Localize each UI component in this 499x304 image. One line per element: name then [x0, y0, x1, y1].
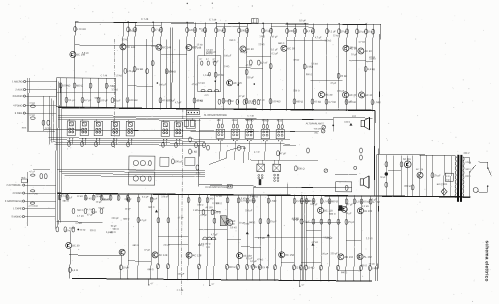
- svg-text:100 µF: 100 µF: [289, 29, 298, 33]
- svg-text:1 MΩ: 1 MΩ: [208, 198, 214, 200]
- svg-text:220 pF: 220 pF: [189, 28, 198, 32]
- svg-text:12 kΩ: 12 kΩ: [209, 52, 215, 54]
- svg-text:ALTOPARLANTE: ALTOPARLANTE: [306, 122, 325, 125]
- svg-text:4,7 kΩ: 4,7 kΩ: [328, 100, 336, 104]
- svg-text:12 kΩ: 12 kΩ: [128, 31, 134, 33]
- svg-text:220 pF: 220 pF: [331, 253, 339, 255]
- svg-text:5 MONO: 5 MONO: [12, 215, 22, 218]
- svg-text:1,5 kΩ: 1,5 kΩ: [261, 265, 269, 269]
- svg-text:schema elettrico: schema elettrico: [483, 241, 489, 282]
- svg-text:RADIO: RADIO: [246, 119, 254, 122]
- svg-text:AL 102: AL 102: [364, 255, 373, 259]
- svg-text:100 µF: 100 µF: [310, 204, 318, 206]
- svg-text:BC 30: BC 30: [287, 46, 295, 50]
- svg-text:47 kΩ: 47 kΩ: [369, 57, 375, 59]
- svg-text:1 MΩ: 1 MΩ: [224, 66, 230, 68]
- svg-text:220 pF: 220 pF: [112, 218, 120, 220]
- svg-text:47 µF: 47 µF: [347, 204, 354, 206]
- svg-text:10 µF: 10 µF: [69, 228, 76, 230]
- svg-text:10 kΩ: 10 kΩ: [197, 100, 203, 102]
- svg-text:C 7.49: C 7.49: [209, 18, 217, 21]
- svg-text:100 kΩ: 100 kΩ: [227, 224, 235, 226]
- svg-text:1 MΩ: 1 MΩ: [374, 100, 380, 104]
- svg-text:12 kΩ: 12 kΩ: [356, 199, 363, 203]
- svg-text:680 Ω: 680 Ω: [278, 43, 284, 45]
- svg-text:47 µF: 47 µF: [239, 96, 246, 98]
- svg-text:5,6 Ω: 5,6 Ω: [72, 268, 78, 272]
- svg-text:ALTI: ALTI: [204, 94, 209, 97]
- svg-text:47 kΩ: 47 kΩ: [246, 65, 252, 67]
- svg-text:50 µF: 50 µF: [111, 226, 118, 228]
- svg-text:0,1 µF: 0,1 µF: [329, 29, 337, 33]
- svg-text:220 pF: 220 pF: [124, 199, 132, 201]
- svg-text:25 µF: 25 µF: [213, 61, 220, 63]
- svg-text:3,3 kΩ: 3,3 kΩ: [304, 200, 311, 202]
- svg-text:AC 30: AC 30: [349, 93, 357, 97]
- svg-text:100 µF: 100 µF: [175, 159, 184, 163]
- svg-text:10 µF: 10 µF: [239, 223, 246, 225]
- svg-text:47 kΩ: 47 kΩ: [29, 103, 35, 105]
- svg-text:47 µF: 47 µF: [140, 218, 147, 222]
- svg-text:4,7 µF: 4,7 µF: [29, 171, 36, 173]
- svg-text:10 kΩ: 10 kΩ: [151, 46, 157, 48]
- svg-text:25 µF: 25 µF: [270, 219, 277, 223]
- svg-text:5,6 kΩ: 5,6 kΩ: [85, 198, 92, 200]
- svg-text:680 Ω: 680 Ω: [103, 200, 109, 202]
- svg-text:330 Ω: 330 Ω: [298, 166, 305, 170]
- svg-text:10 µF: 10 µF: [346, 213, 353, 215]
- svg-text:220 pF: 220 pF: [337, 91, 345, 93]
- svg-text:47 kΩ: 47 kΩ: [314, 100, 321, 104]
- svg-text:10 µF: 10 µF: [351, 54, 358, 56]
- svg-text:0,1 µF: 0,1 µF: [246, 258, 253, 260]
- svg-text:0,1 µF: 0,1 µF: [241, 52, 248, 54]
- svg-text:2,2 kΩ: 2,2 kΩ: [366, 238, 373, 240]
- svg-text:4 Ω: 4 Ω: [446, 176, 450, 178]
- svg-text:1,5 kΩ: 1,5 kΩ: [324, 40, 331, 42]
- svg-text:560 Ω: 560 Ω: [113, 229, 119, 231]
- svg-text:VOLUME: VOLUME: [314, 128, 323, 130]
- svg-text:47 µF: 47 µF: [201, 31, 208, 33]
- svg-text:25 µF: 25 µF: [114, 98, 121, 102]
- svg-text:12 kΩ: 12 kΩ: [165, 71, 171, 73]
- svg-text:160 V: 160 V: [465, 169, 471, 171]
- svg-text:100 µF: 100 µF: [65, 197, 73, 199]
- svg-text:220 pF: 220 pF: [161, 196, 169, 198]
- svg-text:AD 162: AD 162: [344, 255, 353, 259]
- svg-text:2,2 kΩ: 2,2 kΩ: [212, 203, 219, 205]
- svg-text:4,7 nF: 4,7 nF: [260, 61, 268, 65]
- svg-text:25 µF: 25 µF: [434, 173, 441, 177]
- svg-text:1000 µF: 1000 µF: [404, 186, 412, 188]
- svg-text:4,7 µF: 4,7 µF: [307, 29, 315, 33]
- svg-text:AL REGISTRATORE: AL REGISTRATORE: [204, 114, 228, 117]
- svg-text:12 kΩ: 12 kΩ: [216, 196, 222, 198]
- svg-text:C 7.48: C 7.48: [141, 18, 149, 21]
- svg-text:10 kΩ: 10 kΩ: [369, 264, 375, 266]
- svg-text:220 pF: 220 pF: [245, 210, 253, 212]
- svg-text:0,1 µF: 0,1 µF: [345, 101, 352, 103]
- svg-text:5,6 kΩ: 5,6 kΩ: [230, 227, 237, 229]
- svg-text:2,2 µF: 2,2 µF: [200, 215, 207, 217]
- svg-text:22 kΩ: 22 kΩ: [136, 67, 143, 71]
- svg-text:AC 128: AC 128: [159, 253, 168, 257]
- svg-text:1,5 kΩ: 1,5 kΩ: [248, 196, 255, 198]
- svg-text:560 Ω: 560 Ω: [198, 245, 204, 247]
- svg-text:100 µF: 100 µF: [224, 55, 232, 57]
- svg-text:12 kΩ: 12 kΩ: [65, 230, 71, 232]
- svg-text:50 µF: 50 µF: [380, 177, 386, 179]
- svg-text:22 kΩ: 22 kΩ: [191, 47, 197, 49]
- svg-text:330 Ω: 330 Ω: [90, 230, 96, 232]
- svg-text:25 µF: 25 µF: [322, 254, 329, 256]
- svg-text:50 µF: 50 µF: [169, 100, 176, 102]
- svg-text:680 Ω: 680 Ω: [76, 83, 83, 87]
- svg-text:50 µF: 50 µF: [199, 29, 206, 31]
- svg-text:220 V: 220 V: [463, 153, 469, 155]
- svg-text:4 FONO: 4 FONO: [13, 104, 22, 107]
- svg-text:1,5 kΩ: 1,5 kΩ: [323, 199, 331, 203]
- svg-text:100 kΩ: 100 kΩ: [129, 98, 137, 102]
- svg-text:1 MΩ: 1 MΩ: [259, 36, 265, 38]
- svg-text:50 µF: 50 µF: [99, 208, 106, 210]
- svg-text:680 Ω: 680 Ω: [329, 214, 335, 216]
- svg-text:47 µF: 47 µF: [272, 37, 279, 39]
- svg-text:1,5 kΩ: 1,5 kΩ: [239, 198, 246, 200]
- svg-text:12 kΩ: 12 kΩ: [197, 44, 203, 46]
- svg-text:47 µF: 47 µF: [62, 194, 69, 196]
- svg-text:100 µF: 100 µF: [177, 274, 185, 276]
- svg-text:560 Ω: 560 Ω: [350, 47, 356, 49]
- svg-text:2,2 µF: 2,2 µF: [370, 199, 377, 201]
- svg-text:FONO: FONO: [262, 119, 269, 122]
- svg-text:AL 102: AL 102: [364, 209, 373, 213]
- svg-text:100 kΩ: 100 kΩ: [272, 99, 280, 103]
- svg-text:AC 30: AC 30: [364, 49, 372, 53]
- svg-text:1,5 kΩ: 1,5 kΩ: [203, 75, 210, 77]
- svg-text:AC 30: AC 30: [365, 93, 373, 97]
- svg-text:1 MICRO: 1 MICRO: [12, 80, 22, 83]
- svg-text:REG: REG: [277, 119, 282, 122]
- svg-text:47 µF: 47 µF: [155, 28, 162, 32]
- svg-text:22 kΩ: 22 kΩ: [91, 212, 97, 214]
- svg-text:330 Ω: 330 Ω: [197, 205, 203, 207]
- svg-text:8 Ω: 8 Ω: [446, 179, 450, 181]
- svg-text:REG: REG: [21, 177, 26, 179]
- svg-text:ATT FONO: ATT FONO: [29, 192, 39, 195]
- svg-text:100 µF: 100 µF: [100, 98, 109, 102]
- svg-text:25 µF: 25 µF: [368, 30, 375, 34]
- svg-text:1 TAPE: 1 TAPE: [13, 207, 22, 210]
- svg-text:680 Ω: 680 Ω: [147, 269, 153, 271]
- svg-text:1 kΩ: 1 kΩ: [192, 149, 197, 153]
- svg-text:3,3 kΩ: 3,3 kΩ: [367, 67, 375, 71]
- svg-text:330 Ω: 330 Ω: [228, 265, 235, 269]
- svg-text:10 µF: 10 µF: [125, 209, 132, 211]
- svg-text:2,2 kΩ: 2,2 kΩ: [75, 223, 82, 225]
- svg-text:100 µF: 100 µF: [224, 222, 232, 224]
- svg-text:100 kΩ: 100 kΩ: [95, 196, 102, 198]
- svg-text:680 Ω: 680 Ω: [133, 245, 139, 247]
- svg-text:MIC: MIC: [217, 119, 222, 122]
- svg-text:4,7 µF: 4,7 µF: [315, 37, 322, 39]
- svg-text:25 µF: 25 µF: [348, 220, 355, 224]
- svg-text:170 mV: 170 mV: [77, 27, 86, 31]
- svg-text:3,3 kΩ: 3,3 kΩ: [258, 100, 265, 102]
- svg-text:0,1 µF: 0,1 µF: [271, 53, 278, 55]
- svg-text:BC 30: BC 30: [246, 47, 254, 51]
- svg-text:10 µF: 10 µF: [359, 29, 366, 33]
- svg-text:10 µF: 10 µF: [96, 202, 103, 204]
- svg-text:47 µF: 47 µF: [87, 215, 94, 217]
- svg-text:BC 30: BC 30: [325, 93, 333, 97]
- svg-text:100 Ω: 100 Ω: [344, 122, 350, 124]
- svg-text:4,7 µF: 4,7 µF: [211, 234, 218, 236]
- svg-text:4,7 µF: 4,7 µF: [84, 98, 92, 102]
- svg-text:47 µF: 47 µF: [178, 218, 185, 220]
- svg-text:330 Ω: 330 Ω: [229, 40, 235, 42]
- svg-text:2 AUX: 2 AUX: [15, 88, 22, 91]
- svg-text:560 Ω: 560 Ω: [293, 90, 299, 92]
- svg-text:4,7 kΩ: 4,7 kΩ: [358, 42, 365, 44]
- svg-text:3 GIRADISCHI: 3 GIRADISCHI: [5, 200, 22, 203]
- svg-text:47 µF: 47 µF: [144, 250, 151, 252]
- svg-text:22 kΩ: 22 kΩ: [295, 265, 302, 269]
- svg-text:100 µF: 100 µF: [241, 28, 250, 32]
- svg-text:470 µF: 470 µF: [127, 69, 136, 73]
- svg-text:10 µF: 10 µF: [341, 29, 348, 33]
- svg-text:10 µF: 10 µF: [123, 265, 130, 269]
- svg-text:47 µF: 47 µF: [280, 151, 287, 155]
- svg-text:22 kΩ: 22 kΩ: [258, 44, 264, 46]
- svg-text:AY 103: AY 103: [205, 206, 213, 209]
- svg-text:680 Ω: 680 Ω: [331, 199, 338, 203]
- svg-text:680 Ω: 680 Ω: [341, 272, 347, 274]
- svg-text:1 kΩ: 1 kΩ: [241, 146, 246, 150]
- svg-text:22 kΩ: 22 kΩ: [340, 74, 347, 78]
- svg-text:0,1 µF: 0,1 µF: [68, 98, 76, 102]
- svg-text:22 kΩ: 22 kΩ: [248, 103, 254, 105]
- svg-text:560 Ω: 560 Ω: [95, 98, 101, 100]
- svg-text:5 REG: 5 REG: [15, 112, 23, 115]
- svg-text:AL REGISTRATORE: AL REGISTRATORE: [205, 186, 228, 189]
- svg-text:12 kΩ: 12 kΩ: [249, 266, 255, 268]
- svg-text:47 kΩ: 47 kΩ: [192, 84, 198, 86]
- svg-text:1,5 kΩ: 1,5 kΩ: [311, 63, 318, 65]
- svg-text:2,2 kΩ: 2,2 kΩ: [362, 206, 369, 208]
- svg-text:1,5 kΩ: 1,5 kΩ: [121, 39, 128, 41]
- svg-text:3,3 kΩ: 3,3 kΩ: [111, 89, 118, 91]
- svg-text:560 Ω: 560 Ω: [361, 265, 367, 267]
- svg-text:BC 158: BC 158: [285, 253, 294, 257]
- svg-text:220 V: 220 V: [465, 176, 471, 178]
- svg-text:C 7.48: C 7.48: [247, 115, 254, 117]
- svg-text:680 Ω: 680 Ω: [148, 207, 154, 209]
- svg-text:10 kΩ: 10 kΩ: [307, 266, 314, 270]
- svg-text:AD 149: AD 149: [403, 158, 411, 161]
- svg-text:AC 126: AC 126: [233, 81, 242, 85]
- svg-text:47 kΩ: 47 kΩ: [29, 115, 35, 117]
- svg-text:2,2 kΩ: 2,2 kΩ: [325, 237, 332, 239]
- svg-text:AC 128: AC 128: [416, 168, 424, 171]
- svg-text:BC 118: BC 118: [324, 208, 333, 212]
- svg-text:1,5 kΩ: 1,5 kΩ: [115, 75, 122, 77]
- svg-text:560 Ω: 560 Ω: [77, 210, 83, 212]
- svg-text:4,7 kΩ: 4,7 kΩ: [311, 242, 318, 244]
- svg-text:4,7 kΩ: 4,7 kΩ: [258, 238, 265, 240]
- svg-text:4,7 µF: 4,7 µF: [175, 102, 182, 104]
- svg-text:2 ALTOPARL.: 2 ALTOPARL.: [6, 184, 22, 187]
- svg-text:10 µF: 10 µF: [218, 28, 225, 32]
- svg-text:47 kΩ: 47 kΩ: [293, 60, 299, 62]
- svg-text:C 7.48: C 7.48: [177, 290, 184, 292]
- svg-text:125 V: 125 V: [465, 162, 471, 164]
- svg-text:220 pF: 220 pF: [247, 77, 255, 79]
- svg-text:3,3 kΩ: 3,3 kΩ: [198, 83, 205, 85]
- svg-text:1 MΩ: 1 MΩ: [371, 266, 377, 270]
- svg-text:CAR: CAR: [232, 119, 237, 122]
- svg-text:12 kΩ: 12 kΩ: [77, 196, 83, 198]
- svg-text:1 MΩ: 1 MΩ: [193, 210, 199, 212]
- svg-text:220 pF: 220 pF: [150, 198, 158, 200]
- svg-text:0,5 µF: 0,5 µF: [299, 19, 306, 22]
- svg-text:AC 128: AC 128: [193, 253, 202, 257]
- svg-text:4 FONO: 4 FONO: [12, 192, 21, 195]
- svg-text:680 Ω: 680 Ω: [123, 219, 129, 221]
- svg-text:3 RADIO: 3 RADIO: [12, 95, 22, 98]
- svg-text:8 Ω: 8 Ω: [352, 116, 356, 118]
- svg-text:680 Ω: 680 Ω: [110, 232, 116, 234]
- svg-text:1 MΩ: 1 MΩ: [270, 199, 276, 203]
- svg-text:REG: REG: [22, 128, 27, 130]
- svg-text:680 Ω: 680 Ω: [249, 222, 255, 224]
- svg-text:BC 149: BC 149: [126, 45, 135, 49]
- svg-text:4,7 kΩ: 4,7 kΩ: [77, 216, 84, 218]
- svg-text:12 kΩ: 12 kΩ: [333, 35, 339, 37]
- svg-text:22 kΩ: 22 kΩ: [163, 245, 169, 247]
- svg-text:560 Ω: 560 Ω: [306, 74, 312, 76]
- svg-text:BC 30: BC 30: [72, 243, 80, 247]
- svg-text:680 Ω: 680 Ω: [296, 99, 303, 103]
- svg-text:4,7 kΩ: 4,7 kΩ: [206, 50, 213, 52]
- svg-text:100 µF: 100 µF: [159, 84, 167, 86]
- svg-text:22 kΩ: 22 kΩ: [80, 230, 86, 232]
- svg-text:4,7 nF: 4,7 nF: [254, 152, 260, 154]
- svg-text:100 kΩ: 100 kΩ: [62, 83, 70, 87]
- svg-text:25 µF: 25 µF: [265, 29, 272, 33]
- svg-text:C 7.48: C 7.48: [101, 75, 108, 77]
- svg-text:47 µF: 47 µF: [303, 219, 310, 223]
- svg-text:ATT FONO: ATT FONO: [29, 205, 39, 208]
- svg-text:0,1 µF: 0,1 µF: [142, 197, 149, 199]
- svg-text:5,6 kΩ: 5,6 kΩ: [82, 53, 89, 55]
- svg-text:680 Ω: 680 Ω: [63, 201, 69, 203]
- svg-text:1 MΩ: 1 MΩ: [108, 84, 114, 88]
- svg-text:47 µF: 47 µF: [330, 83, 337, 85]
- svg-text:1,2 kΩ: 1,2 kΩ: [45, 128, 52, 130]
- svg-text:47 µF: 47 µF: [293, 220, 300, 222]
- svg-text:47 kΩ: 47 kΩ: [257, 259, 263, 261]
